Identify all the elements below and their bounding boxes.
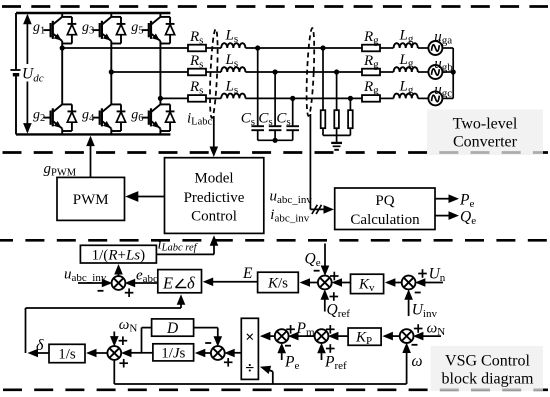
wire: phase a Rs-Ls xyxy=(206,47,221,49)
dashed top border xyxy=(2,5,548,8)
ground xyxy=(331,143,342,150)
wire: phase c line xyxy=(160,97,188,99)
block PWM xyxy=(57,177,125,220)
sign plus divider input xyxy=(224,358,233,367)
svg-text:E: E xyxy=(242,265,253,282)
slash marks multi-signal xyxy=(312,205,322,214)
sign minus Qe xyxy=(314,270,320,272)
block E-angle-delta xyxy=(158,270,202,293)
IGBT Q3 (leg b top) xyxy=(93,13,126,44)
wire P sum to mult xyxy=(260,332,276,341)
wire: source c to bus xyxy=(442,97,453,99)
wire omegaN input right xyxy=(413,332,441,341)
block KP xyxy=(348,328,381,347)
node phase b xyxy=(109,69,114,74)
wire: Cs star bus xyxy=(258,139,293,141)
svg-text:block diagram: block diagram xyxy=(442,370,535,387)
capacitor Cs c xyxy=(286,98,299,140)
wire: leg b mid xyxy=(110,44,112,101)
source ugb xyxy=(428,65,442,79)
block K/s xyxy=(258,272,299,292)
sum junction Pref xyxy=(315,329,329,343)
sign minus Pe xyxy=(285,345,291,347)
wire: leg c bottom stub xyxy=(159,131,161,134)
wire: leg c mid xyxy=(159,44,161,101)
svg-text:VSG Control: VSG Control xyxy=(445,352,530,369)
sum junction delta xyxy=(107,346,121,360)
wire Qe out xyxy=(435,211,459,220)
wire Kv out to Q sum xyxy=(332,278,351,287)
label box VSG Control block diagram xyxy=(431,346,543,391)
sign plus omegaN xyxy=(119,336,128,345)
damping resistor a xyxy=(322,48,324,135)
wire delta sum out xyxy=(86,349,108,358)
dashed bottom border xyxy=(3,388,548,391)
wire: leg a bottom stub xyxy=(61,131,63,134)
wire: source b to bus xyxy=(442,71,453,73)
node Cs star point xyxy=(273,138,278,143)
svg-text:Control: Control xyxy=(191,209,237,225)
node cap tap c xyxy=(290,96,295,101)
wire D out to D sum xyxy=(194,328,223,347)
wire: phase c Rs-Ls xyxy=(206,97,221,99)
resistor Rg phase a xyxy=(362,45,380,52)
wire: DC top rail xyxy=(16,12,170,14)
svg-text:Converter: Converter xyxy=(453,134,518,151)
node damp tap b xyxy=(334,69,339,74)
sign minus Uinv xyxy=(415,292,421,294)
node grid bus xyxy=(451,69,456,74)
svg-text:ω: ω xyxy=(412,353,423,370)
sign minus D xyxy=(205,342,211,344)
node cap tap a xyxy=(255,45,260,50)
Udc measure arrow xyxy=(23,14,32,134)
resistor Rs phase c xyxy=(188,95,206,102)
wire Qref up xyxy=(321,289,330,311)
wire iLabc sensor to MPC xyxy=(213,116,215,149)
inductor Lg phase b xyxy=(394,67,418,72)
svg-text:Two-level: Two-level xyxy=(453,116,518,133)
label box Two-level Converter xyxy=(427,110,543,156)
IGBT Q5 (leg c top) xyxy=(142,13,175,44)
svg-text:PQ: PQ xyxy=(375,193,394,209)
wire: phase a Lg-source xyxy=(418,47,429,49)
source ugc xyxy=(428,91,442,105)
sign plus Pm xyxy=(286,325,295,334)
wire: leg a mid xyxy=(61,44,63,101)
wire eabc xyxy=(125,279,158,288)
wire Un input xyxy=(415,278,443,287)
wire Pref sum to P sum xyxy=(288,332,315,341)
wire: damping bus xyxy=(323,134,350,136)
resistor Rs phase b xyxy=(188,69,206,76)
svg-text:K/s: K/s xyxy=(267,276,288,292)
inductor Lg phase a xyxy=(394,43,418,48)
IGBT Q6 (leg c bottom) xyxy=(142,100,175,131)
wire KP to Pref sum xyxy=(328,332,348,341)
wire mult-div out to D sum xyxy=(224,349,241,358)
block PQ Calculation xyxy=(335,188,435,230)
sign plus omegaN right xyxy=(414,324,423,333)
block 1/(R+Ls) xyxy=(80,245,156,263)
wire: ground stem xyxy=(336,135,338,143)
sum junction U xyxy=(402,276,416,290)
label Udc xyxy=(21,64,46,85)
wire: phase a Ls-Rg xyxy=(245,47,362,49)
svg-text:Model: Model xyxy=(194,170,233,186)
wire 1/Js out to delta sum xyxy=(121,349,153,358)
IGBT Q4 (leg b bottom) xyxy=(93,100,126,131)
wire iLabc_ref to MPC xyxy=(156,235,218,254)
wire: phase b Ls-Rg xyxy=(245,71,362,73)
svg-text:Calculation: Calculation xyxy=(350,212,420,228)
svg-text:δ: δ xyxy=(187,273,195,292)
feedback delta line xyxy=(26,294,186,357)
node damp tap a xyxy=(320,45,325,50)
sign plus Un xyxy=(418,269,427,278)
wire: source a to bus xyxy=(442,47,453,49)
wire U sum to Kv xyxy=(385,278,403,287)
sign minus omega xyxy=(412,344,418,346)
svg-text:1/s: 1/s xyxy=(58,347,76,363)
inductor Lg phase c xyxy=(394,94,418,99)
resistor Rs phase a xyxy=(188,45,206,52)
wire: phase c Ls-Rg xyxy=(245,97,362,99)
sign plus Kv input xyxy=(330,272,339,281)
wire Uinv up xyxy=(404,289,413,316)
sign minus u xyxy=(98,290,104,292)
sign plus eabc xyxy=(125,288,134,297)
resistor Rg phase c xyxy=(362,95,380,102)
block 1/s xyxy=(49,344,85,362)
svg-text:1/(R+Ls): 1/(R+Ls) xyxy=(92,248,145,264)
node phase c xyxy=(158,96,163,101)
wire: DC left conductor xyxy=(15,13,17,134)
wire: phase a line xyxy=(62,47,188,49)
sum junction Q xyxy=(318,276,332,290)
sign plus Pref xyxy=(326,344,335,353)
wire uabc_inv input xyxy=(78,279,112,288)
battery Udc source plates xyxy=(10,70,21,75)
wire: phase b Rg-Lg xyxy=(380,71,394,73)
wire: phase a Rg-Lg xyxy=(380,47,394,49)
current sensor loop iLabc (dashed ellipse) xyxy=(209,29,219,118)
IGBT Q2 (leg a bottom) xyxy=(44,100,77,131)
wire E from K/s xyxy=(203,278,258,287)
inductor Ls phase b xyxy=(221,67,245,72)
source uga xyxy=(428,41,442,55)
wire Q sum to K/s xyxy=(300,278,319,287)
sum junction u xyxy=(112,276,126,290)
wire D input tap xyxy=(142,328,152,353)
dashed converter/control separator xyxy=(3,151,549,154)
wire omegaN down into delta sum xyxy=(110,332,119,347)
node cap tap b xyxy=(273,69,278,74)
IGBT Q1 (leg a top) xyxy=(44,13,77,44)
capacitor Cs a xyxy=(251,48,264,140)
inductor Ls phase c xyxy=(221,94,245,99)
wire gPWM vertical xyxy=(90,143,92,177)
svg-text:E: E xyxy=(162,273,173,292)
wire omega to div xyxy=(259,363,273,384)
wire: phase b Rs-Ls xyxy=(206,71,221,73)
wire omega sum to KP xyxy=(382,332,400,341)
wire: phase b line xyxy=(111,71,188,73)
wire Pe up xyxy=(277,343,286,360)
wire Pref up xyxy=(317,343,326,360)
wire sensor2 down to PQ xyxy=(310,114,334,214)
svg-text:PWM: PWM xyxy=(73,192,109,208)
block Model Predictive Control xyxy=(165,158,264,234)
dashed VSG separator xyxy=(0,239,548,242)
sign plus omega fb xyxy=(119,359,128,368)
damping resistor c xyxy=(349,98,351,135)
svg-text:D: D xyxy=(166,320,178,337)
svg-text:Predictive: Predictive xyxy=(184,190,245,206)
node phase a xyxy=(60,45,65,50)
wire: phase b Lg-source xyxy=(418,71,429,73)
wire omega feedback xyxy=(114,343,411,385)
sign plus Qref xyxy=(330,292,339,301)
resistor Rg phase b xyxy=(362,69,380,76)
capacitor Cs b xyxy=(269,72,282,140)
wire sum to 1/(R+Ls) xyxy=(114,264,123,277)
inductor Ls phase a xyxy=(221,43,245,48)
sum junction P xyxy=(275,329,289,343)
block 1/Js xyxy=(153,344,194,362)
block mult-div xyxy=(241,318,258,379)
wire Qe down xyxy=(321,244,330,277)
svg-text:×: × xyxy=(245,329,254,346)
svg-text:1/Js: 1/Js xyxy=(161,346,185,362)
svg-text:÷: ÷ xyxy=(245,360,254,377)
node damp tap c xyxy=(348,96,353,101)
current sensor loop abc_inv (dashed ellipse) xyxy=(305,28,315,116)
sum junction D xyxy=(211,346,225,360)
wire: DC bottom rail xyxy=(16,133,170,135)
wire Pe out xyxy=(435,194,459,203)
block D xyxy=(152,319,194,337)
damping resistor b xyxy=(336,72,338,135)
wire: phase c Lg-source xyxy=(418,97,429,99)
wire D sum out to 1/Js xyxy=(195,349,212,358)
sum junction omega xyxy=(400,329,414,343)
svg-text:δ: δ xyxy=(36,337,44,354)
block Kv xyxy=(351,274,384,294)
wire: leg b bottom stub xyxy=(110,131,112,134)
wire MPC to PWM xyxy=(133,196,165,198)
wire: grid neutral bus xyxy=(452,48,454,98)
wire: phase c Rg-Lg xyxy=(380,97,394,99)
sign plus KP out xyxy=(326,325,335,334)
